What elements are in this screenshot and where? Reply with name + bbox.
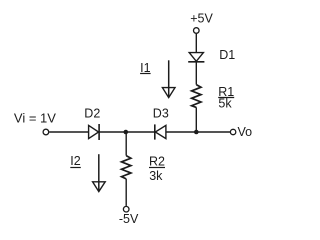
wire from node B to Vo terminal: [196, 131, 230, 133]
wire from node A to R2: [125, 132, 127, 156]
diode D3: [155, 124, 166, 139]
underline of R2: [149, 167, 165, 169]
resistor R1: [192, 85, 201, 108]
svg-text:D3: D3: [153, 107, 169, 121]
diode D2: [89, 124, 100, 140]
svg-text:R2: R2: [149, 155, 165, 169]
resistor R2: [122, 156, 131, 179]
svg-text:D1: D1: [219, 48, 235, 62]
svg-text:3k: 3k: [149, 169, 163, 183]
wire from R2 to -5V terminal: [125, 179, 127, 206]
wire from R1 to node B: [195, 107, 197, 132]
svg-text:I2: I2: [70, 154, 80, 168]
svg-text:D2: D2: [84, 107, 100, 121]
wire from D2 cathode to node A: [99, 131, 126, 133]
output terminal Vo: [230, 129, 235, 134]
input terminal Vi: [43, 129, 49, 135]
power terminal +5V: [194, 28, 200, 34]
wire from D3 anode to node B: [166, 131, 196, 133]
svg-text:+5V: +5V: [190, 12, 213, 26]
node A junction dot: [124, 130, 129, 135]
wire from +5V terminal to D1 anode: [195, 34, 197, 53]
svg-text:Vo: Vo: [238, 125, 253, 139]
svg-text:Vi = 1V: Vi = 1V: [14, 110, 56, 125]
svg-text:5k: 5k: [218, 97, 232, 111]
power terminal -5V: [123, 206, 129, 212]
node B junction dot: [194, 130, 199, 135]
underline of I1: [140, 73, 151, 75]
wire from D1 cathode to R1: [195, 62, 197, 85]
svg-text:-5V: -5V: [119, 212, 139, 226]
underline of R1: [218, 97, 234, 99]
diode D1: [188, 53, 204, 62]
wire from node A to D3 cathode: [126, 131, 155, 133]
underline of I2: [70, 167, 81, 169]
wire from Vi terminal to D2 anode: [49, 131, 88, 133]
current arrow I2: [93, 154, 106, 191]
current arrow I1: [162, 60, 175, 97]
